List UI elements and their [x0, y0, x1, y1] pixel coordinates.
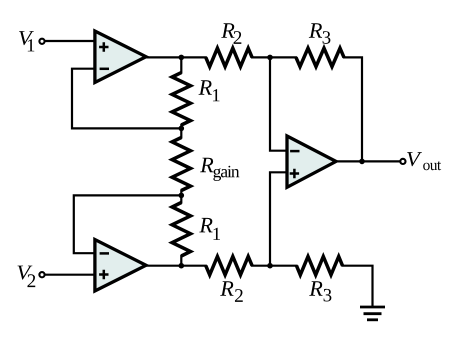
- wire op-amp U1 inverting feedback: [72, 69, 181, 129]
- wire V1 input: [45, 40, 96, 42]
- label Rgain subscript gain: [213, 166, 239, 181]
- wire V2 input: [45, 274, 96, 276]
- ground: [360, 307, 385, 320]
- junction node R2/R3 top: [267, 55, 273, 61]
- label R1 bottom 'R': [199, 218, 212, 233]
- label R2 bottom 'R': [220, 281, 233, 296]
- wire R2 top to junction: [252, 56, 296, 58]
- junction node R1 top / Rgain: [179, 126, 185, 132]
- resistor R2 (bottom): [206, 257, 252, 275]
- label V2 'V': [17, 266, 32, 280]
- wire node column segment 3: [180, 191, 182, 203]
- label V1 'V': [19, 31, 34, 45]
- junction node U1 output: [179, 55, 185, 61]
- label R3 bottom subscript 3: [324, 289, 332, 302]
- resistor R1 (bottom): [172, 203, 190, 257]
- label R1 top 'R': [199, 80, 212, 95]
- junction node R2/R3 bottom: [267, 263, 273, 269]
- label R3 bottom 'R': [309, 281, 322, 296]
- label V1 subscript 1: [28, 39, 35, 51]
- terminal V1: [39, 39, 44, 44]
- terminal V2: [39, 272, 44, 277]
- junction node U2 output: [179, 263, 185, 269]
- label R2 top 'R': [221, 23, 234, 38]
- wire R3 top right to feedback corner: [344, 57, 362, 161]
- wire op-amp U2 inverting feedback: [74, 195, 182, 253]
- resistor R1 (top): [172, 73, 190, 125]
- label V2 subscript 2: [27, 274, 35, 287]
- junction node Rgain / R1 bottom: [179, 193, 185, 199]
- label R2 top subscript 2: [234, 31, 242, 44]
- label R3 top 'R': [309, 23, 322, 38]
- label Vout 'V': [407, 152, 422, 166]
- wire R3 bottom to ground corner: [343, 266, 373, 306]
- label R3 top subscript 3: [323, 31, 331, 44]
- wire node column segment 4: [180, 256, 182, 266]
- op-amp U1: [95, 31, 146, 83]
- terminal Vout: [400, 159, 405, 164]
- wire U2 output: [146, 265, 206, 267]
- resistor R3 (bottom): [297, 257, 343, 275]
- wire top junction to U3 inverting input: [270, 57, 287, 150]
- label R2 bottom subscript 2: [235, 289, 243, 302]
- label R1 bottom subscript 1: [213, 228, 220, 240]
- junction node U3 output / R3 feedback: [359, 159, 365, 165]
- wire R2 bottom to junction: [252, 265, 296, 267]
- label Rgain 'R': [200, 158, 213, 173]
- label R1 top subscript 1: [213, 89, 220, 101]
- op-amp U3: [287, 136, 336, 187]
- wire U1 output: [146, 56, 206, 58]
- op-amp U2: [95, 240, 146, 292]
- resistor R3 (top): [296, 48, 344, 66]
- wire U3 output: [336, 160, 400, 162]
- wire node column segment 1: [180, 57, 182, 72]
- wire node column segment 2: [180, 125, 182, 138]
- label Vout subscript out: [423, 161, 441, 170]
- resistor Rgain: [172, 138, 190, 191]
- wire bottom junction to U3 non-inverting input: [270, 172, 287, 265]
- resistor R2 (top): [206, 48, 252, 66]
